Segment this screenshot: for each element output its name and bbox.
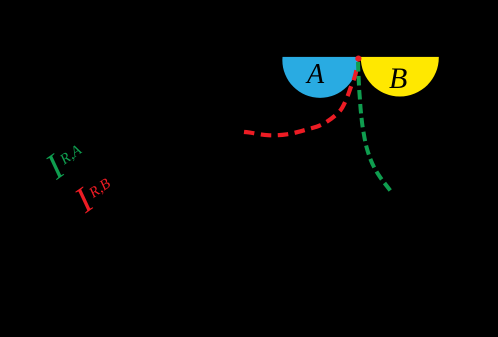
svg-text:A: A [305, 59, 325, 90]
label I_RB (red, rotated) [66, 166, 120, 221]
label I_RA (green, rotated) [37, 132, 92, 187]
red dashed curve [244, 64, 358, 135]
svg-text:B: B [389, 62, 407, 95]
cover rect flattening disk tops [0, 0, 498, 57]
red dot at junction [355, 56, 361, 62]
region B disk (circle, top covered) [361, 19, 439, 97]
region A disk (circle, top covered) [282, 22, 358, 98]
green dashed curve [358, 62, 392, 192]
